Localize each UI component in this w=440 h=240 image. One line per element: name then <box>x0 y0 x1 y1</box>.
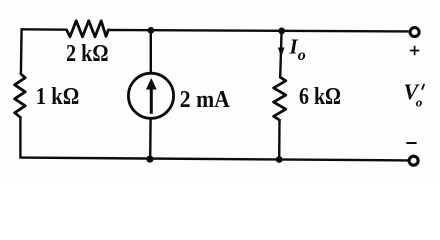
svg-text:2 kΩ: 2 kΩ <box>66 41 109 67</box>
node dot top middle <box>148 27 155 34</box>
resistor 1 kOhm (left, vertical zigzag) <box>15 74 26 117</box>
node dot top right <box>278 28 285 35</box>
wire right vertical lower <box>278 120 281 160</box>
current arrow Io (down, on wire) <box>278 48 285 58</box>
wire middle vertical upper <box>150 30 152 73</box>
terminal bottom right <box>409 156 418 165</box>
wire bottom horizontal <box>20 158 408 161</box>
svg-text:o: o <box>298 47 306 64</box>
svg-text:6 kΩ: 6 kΩ <box>299 84 341 110</box>
node dot bottom right <box>276 156 283 163</box>
svg-text:o: o <box>416 95 423 110</box>
terminal top right <box>410 28 419 37</box>
wire left vertical upper <box>20 28 23 74</box>
svg-text:1 kΩ: 1 kΩ <box>36 84 80 110</box>
current source arrow (up) <box>150 87 153 114</box>
wire top middle-to-right horizontal <box>108 30 408 31</box>
resistor 2 kOhm (top, horizontal zigzag) <box>67 21 109 37</box>
node dot bottom middle <box>146 156 153 163</box>
current source 2 mA (circle) <box>128 73 173 118</box>
plus sign <box>410 46 420 55</box>
svg-text:2 mA: 2 mA <box>180 87 231 113</box>
wire right vertical upper <box>280 31 281 77</box>
wire top-left horizontal <box>22 28 67 31</box>
wire left vertical lower <box>19 117 21 158</box>
resistor 6 kOhm (right, vertical zigzag) <box>274 77 286 120</box>
wire middle vertical lower <box>149 118 152 159</box>
minus sign <box>406 142 416 144</box>
